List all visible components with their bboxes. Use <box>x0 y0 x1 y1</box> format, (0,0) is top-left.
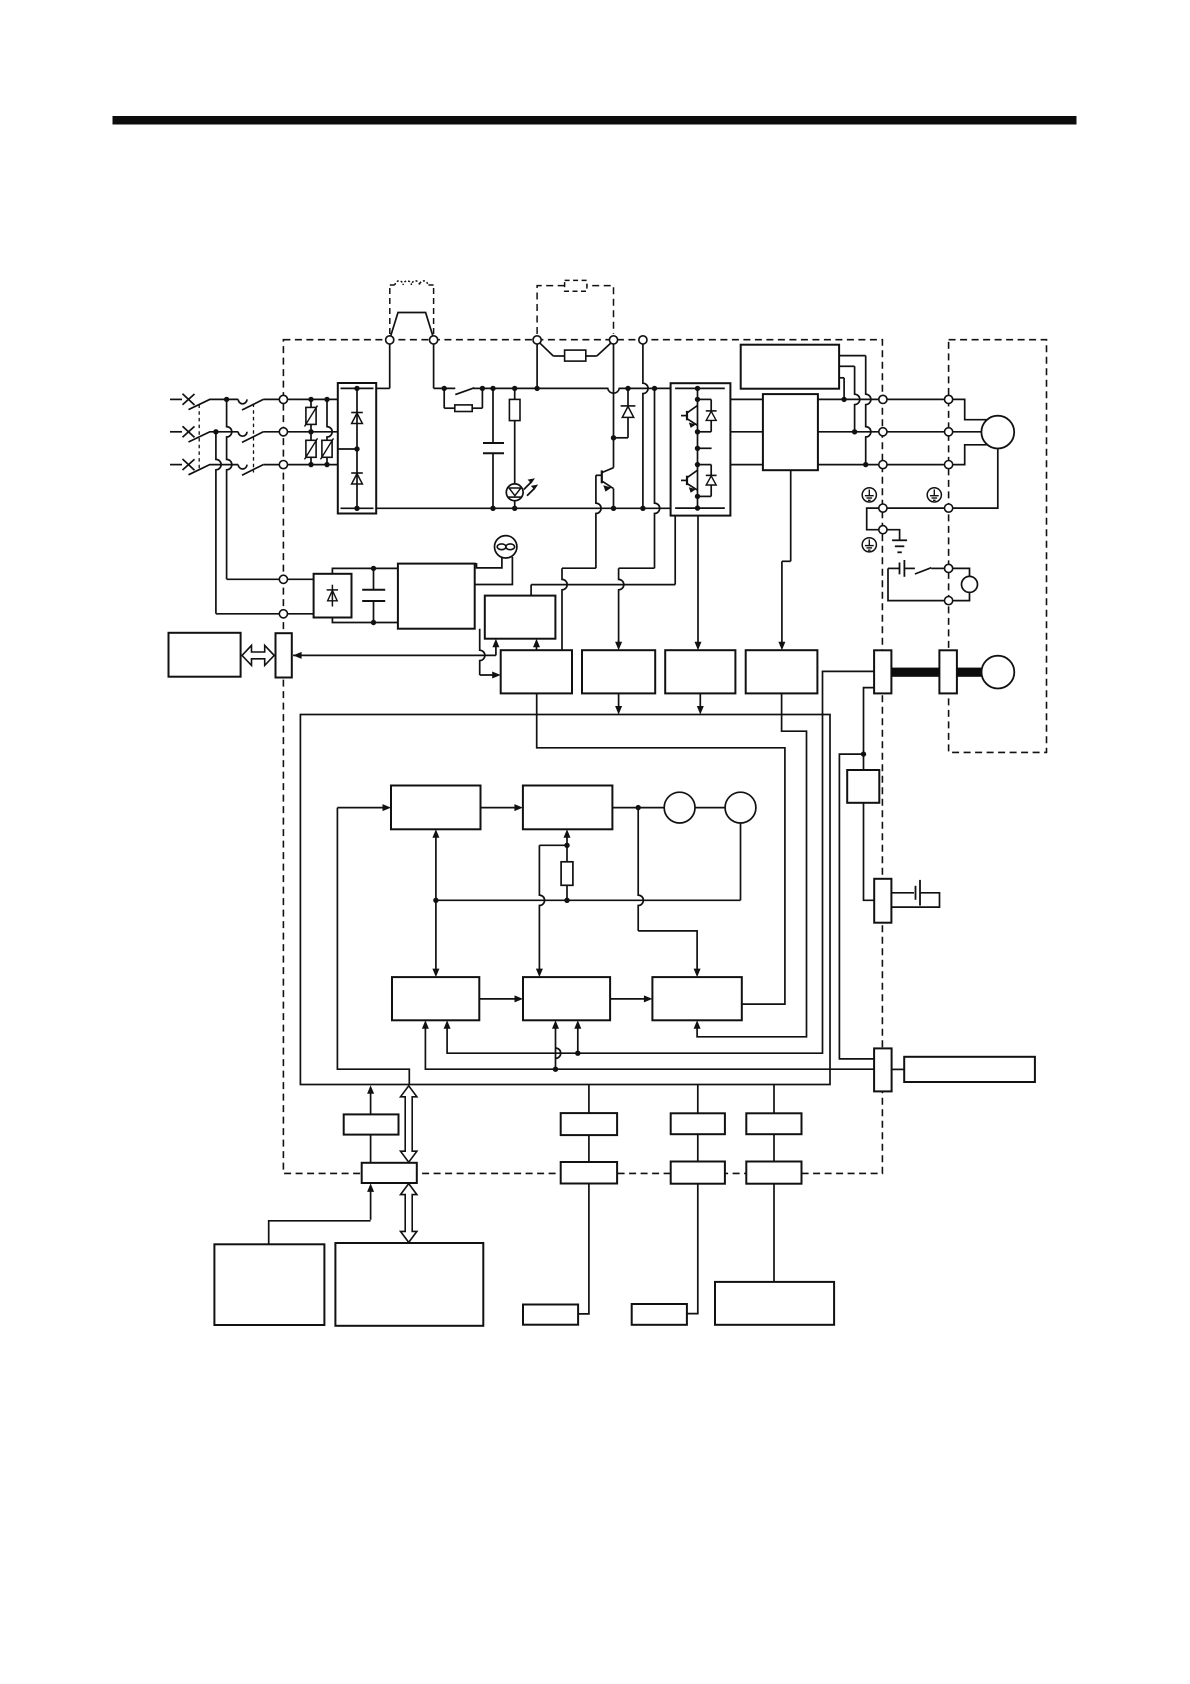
external operation unit block <box>169 633 241 677</box>
wire lamp lead 1 <box>475 557 502 568</box>
dynamic brake circuit block <box>741 345 839 389</box>
wire battery feed to CN1 connector <box>839 754 874 1059</box>
wire column4 to connector <box>773 1134 775 1161</box>
magnetic contactor MC pole S <box>238 432 247 436</box>
wire CN1B to option <box>892 1068 905 1070</box>
junction cap N <box>490 506 495 511</box>
junction resistor on feedback line <box>564 898 569 903</box>
terminal P2 <box>430 336 438 344</box>
junction IPM P rail <box>695 386 700 391</box>
battery MR-BAT <box>891 892 914 894</box>
wire model speed feedback <box>566 834 568 845</box>
wire CT sense down <box>790 470 792 561</box>
wire to detection block <box>863 754 865 770</box>
wire S1 to S2 <box>695 807 725 809</box>
junction IPM N rail <box>695 505 700 510</box>
junction regen diode P <box>625 386 630 391</box>
wire speed feedback horizontal <box>436 899 741 901</box>
regenerative brake option dashed box <box>537 286 613 334</box>
protective earth symbol amplifier <box>862 488 876 502</box>
junction IPM up-C <box>695 397 700 402</box>
current detection block <box>665 650 735 693</box>
wire motor W lead <box>953 445 987 465</box>
terminal V <box>879 428 887 436</box>
junction DB tap U <box>841 397 846 402</box>
junction V1/V2 <box>308 429 313 434</box>
wire rectifier + to P1 <box>376 387 390 389</box>
wire digital I/F column 1 <box>370 1090 372 1115</box>
wire U IPM to CT <box>730 398 763 400</box>
junction control cap - <box>371 620 376 625</box>
arrow model position to model speed <box>481 807 519 809</box>
junction cap P <box>490 386 495 391</box>
wire column3 to option unit <box>687 1184 698 1314</box>
junction DB tap W <box>863 462 868 467</box>
wire external sequence to CN1A <box>370 1188 372 1220</box>
inrush resistor bypass <box>443 388 445 408</box>
IPM internal rails <box>675 387 725 389</box>
diode regen freewheel <box>627 388 629 406</box>
wire column2 to monitor output <box>578 1184 589 1314</box>
I/F block column4 upper <box>746 1113 801 1134</box>
connector CN2 amplifier side <box>874 650 891 693</box>
wire up to P1 terminal <box>389 344 391 388</box>
wire R terminal to rectifier <box>287 398 338 400</box>
wire current sense to block <box>697 516 699 645</box>
wire R to contactor <box>210 398 238 400</box>
magnetic contactor MC pole T <box>238 465 247 469</box>
wire PE to earth ground <box>887 530 900 541</box>
wire bus voltage tap to block <box>652 386 657 391</box>
wire to L11 terminal <box>227 578 280 580</box>
servo control section outer block <box>300 715 830 1085</box>
encoder cable thick <box>891 668 939 677</box>
voltage detection block <box>582 650 655 693</box>
DC reactor coil (dotted arcs) <box>395 281 428 285</box>
control rectifier diode block <box>314 574 352 618</box>
connector column2 <box>561 1162 617 1184</box>
wire regen base drive <box>596 474 602 476</box>
wire L11 tap down <box>227 399 232 579</box>
charge lamp arrows <box>524 482 532 490</box>
wire encoder feedback line A <box>447 671 874 1053</box>
junction rectifier mid <box>354 446 359 451</box>
switch brake release <box>915 568 931 574</box>
electrolytic capacitor main <box>492 388 494 443</box>
terminal PE2 <box>879 526 887 534</box>
junction IPM mid <box>695 446 700 451</box>
IPM inverter module <box>671 383 731 515</box>
lamp infinity mark <box>497 544 506 550</box>
regen resistor internal <box>540 343 553 356</box>
analog monitor block <box>523 1305 578 1325</box>
wire DB to W phase <box>839 355 866 357</box>
resistor charge-lamp series <box>514 388 516 399</box>
terminal L3 <box>279 461 287 469</box>
wire CN2 lower lead <box>864 688 875 755</box>
wire P terminal drop <box>536 344 538 388</box>
terminal U <box>879 395 887 403</box>
wire U amplifier to motor <box>887 398 945 400</box>
terminal L1 <box>279 395 287 403</box>
wire motor V lead <box>953 431 982 433</box>
current detector CT block <box>763 394 818 470</box>
MC mechanical link dashed <box>253 404 255 473</box>
wire control DC top rail <box>332 568 398 573</box>
junction IPM dn-E <box>695 494 700 499</box>
junction P bus b <box>480 386 485 391</box>
wire W to output terminal <box>818 464 879 466</box>
servo motor M <box>981 416 1014 449</box>
junction model speed node <box>564 843 569 848</box>
junction lamp N <box>512 506 517 511</box>
IGBT upper <box>686 411 688 420</box>
motor terminal V <box>945 428 953 436</box>
wire P2 down to P bus <box>433 344 435 388</box>
junction lamp P <box>512 386 517 391</box>
switching control power supply block <box>398 564 475 629</box>
varistor V1 (R-S) <box>310 399 312 407</box>
wire to L21 terminal <box>216 613 280 615</box>
wire L11 to control rectifier <box>287 578 313 580</box>
actual position control block <box>392 977 479 1020</box>
wire PE terminal link <box>867 508 879 530</box>
wire lamp lead 2 <box>475 557 513 585</box>
wire motor U lead <box>953 399 987 419</box>
protective earth symbol ground <box>862 538 876 552</box>
lamp display <box>495 536 517 558</box>
junction position link on feedback line <box>433 898 438 903</box>
regen option resistor dashed rect <box>565 280 587 291</box>
encoder E <box>982 656 1015 689</box>
arrow voltage detection into control <box>618 693 620 708</box>
wire T to contactor <box>210 464 238 466</box>
wire RS232 column 3 <box>697 1085 699 1114</box>
junction V1 top <box>308 397 313 402</box>
wire W amplifier to motor <box>887 464 945 466</box>
wire S to contactor <box>210 431 238 433</box>
bidirectional hollow arrow controller upper <box>401 1086 417 1162</box>
junction N terminal on N bus <box>640 506 645 511</box>
junction rectifier - <box>354 506 359 511</box>
circuit breaker NFB pole T <box>183 459 195 470</box>
jumper bar P1-P2 <box>391 313 433 337</box>
junction V3 bottom <box>324 462 329 467</box>
connector CN1B <box>874 1048 892 1091</box>
brake terminal B2 <box>945 597 953 605</box>
personal computer block <box>715 1282 834 1325</box>
wire U to output terminal <box>818 398 879 400</box>
junction control cap + <box>371 566 376 571</box>
varistor V2 (S-T) <box>310 432 312 441</box>
transistor regenerative brake <box>613 438 615 468</box>
terminal PE1 <box>879 504 887 512</box>
motor terminal PE <box>945 504 953 512</box>
optional DC reactor dashed box <box>389 288 391 335</box>
wire T terminal to rectifier <box>287 464 338 466</box>
wire R-phase input stub <box>170 398 182 400</box>
wire P bus <box>434 387 456 389</box>
wire detection block to battery connector <box>864 803 875 901</box>
wire encoder feedback line B <box>425 1025 874 1069</box>
NFB mechanical link dashed <box>198 405 200 472</box>
communication option block <box>632 1304 687 1325</box>
I/F block column3 upper <box>671 1113 725 1134</box>
brake terminal B1 <box>945 564 953 572</box>
terminal C <box>609 336 617 344</box>
wire L21 tap down <box>216 432 221 614</box>
external controller block <box>335 1243 483 1326</box>
junction P bus a <box>442 386 447 391</box>
servo amplifier dashed enclosure <box>283 340 882 1174</box>
option unit long block <box>904 1057 1035 1082</box>
terminal P1 <box>386 336 394 344</box>
junction S-phase tap <box>213 429 218 434</box>
resistor inrush <box>455 405 472 412</box>
wire V to output terminal <box>818 431 879 433</box>
wire overcurrent block to current loop return <box>537 693 785 1004</box>
wire control DC bottom rail <box>332 618 398 623</box>
junction V2 bottom <box>308 462 313 467</box>
wire IPM gate drive <box>674 516 676 585</box>
wire S terminal to rectifier <box>287 431 338 433</box>
junction P terminal <box>534 386 539 391</box>
wire model speed to S1 <box>612 807 664 809</box>
connector CN3 <box>276 633 292 677</box>
ground earth symbol <box>892 539 907 541</box>
summing node S2 <box>725 792 756 823</box>
junction feedback A branch <box>575 1051 580 1056</box>
wire DB to V phase <box>839 365 855 367</box>
wire bidirectional com to CN3 <box>495 644 497 656</box>
wire brake loop bottom <box>953 592 970 600</box>
varistor V3 (R-T) <box>327 399 332 440</box>
arrow current detection into control <box>699 693 701 708</box>
junction regen emitter on N bus <box>611 506 616 511</box>
rectifier diode bridge block <box>338 383 376 514</box>
wire control supply to overcurrent block <box>480 629 485 675</box>
rectifier internal rail and diodes <box>341 387 374 389</box>
summing node S1 <box>664 792 695 823</box>
terminal P <box>533 336 541 344</box>
wire command input to model position control <box>337 807 386 809</box>
connector CN1A <box>362 1163 417 1183</box>
bidirectional hollow arrow controller lower <box>401 1184 417 1243</box>
wire column2 to CN3m <box>588 1135 590 1162</box>
connector column3 <box>671 1162 725 1184</box>
wire brake loop right <box>953 568 970 576</box>
wire branch to actual speed control <box>539 844 567 846</box>
current encoding block <box>746 650 818 693</box>
terminal L11 <box>279 575 287 583</box>
overcurrent protection block <box>501 650 572 693</box>
IPM midpoint output stub <box>698 447 712 449</box>
terminal W <box>879 461 887 469</box>
wire P bus to inverter (dips under C drop) <box>482 388 670 393</box>
motor terminal U <box>945 395 953 403</box>
magnetic contactor MC pole R <box>238 399 247 403</box>
junction IPM dn-C <box>695 462 700 467</box>
model speed control block <box>523 786 613 830</box>
header rule bar <box>113 116 1077 125</box>
wire L21 to control rectifier <box>287 613 313 615</box>
terminal N <box>639 336 647 344</box>
arrow actual position to actual speed <box>479 998 518 1000</box>
wire N bus <box>376 507 670 509</box>
resistor model torque <box>566 845 568 862</box>
wire motor frame earth <box>953 449 998 509</box>
wire W IPM to CT <box>730 464 763 466</box>
junction IPM up-E <box>695 429 700 434</box>
brake coil B <box>962 576 978 592</box>
connector column4 <box>746 1162 801 1184</box>
wire servo config column 4 <box>773 1085 775 1114</box>
current control block <box>652 977 741 1020</box>
wire C terminal to regen transistor <box>613 344 615 438</box>
wire S2 to feedback line <box>740 823 742 900</box>
wire analog monitor column 2 <box>588 1085 590 1114</box>
circuit breaker NFB pole S <box>183 426 195 437</box>
IGBT lower <box>686 476 688 485</box>
terminal L21 <box>279 610 287 618</box>
wire S-phase input stub <box>170 431 182 433</box>
junction model torque tap <box>636 805 641 810</box>
absolute position detection block <box>847 770 879 803</box>
capacitor control filter <box>373 568 375 589</box>
junction DB tap V <box>852 429 857 434</box>
I/F block column1 upper <box>344 1114 399 1134</box>
wire model torque to current control <box>638 808 643 931</box>
wire V amplifier to motor <box>887 431 945 433</box>
motor terminal W <box>945 461 953 469</box>
wire N terminal to N bus <box>643 344 648 508</box>
wire DB to U phase <box>839 377 844 379</box>
junction R-phase tap <box>224 397 229 402</box>
circuit breaker NFB pole R <box>183 394 195 405</box>
wire current encoder to current control feedback <box>697 693 806 1036</box>
wire base amplifier gate line <box>530 585 532 596</box>
inrush suppression relay switch <box>455 388 474 395</box>
diode lower freewheel <box>698 464 712 466</box>
diode control rectifier symbol <box>331 585 333 607</box>
bidirectional hollow arrow CN3 <box>242 645 274 665</box>
wire PE motor to amplifier <box>887 507 945 509</box>
I/F block column2 upper <box>561 1113 617 1135</box>
wire column3 to connector <box>697 1134 699 1161</box>
servo motor dashed enclosure <box>949 340 1047 753</box>
junction feedback B branch <box>553 1067 558 1072</box>
actual speed control block <box>523 977 610 1020</box>
arrow into base amplifier from overcurrent block <box>536 644 538 651</box>
model position control block <box>391 786 481 830</box>
junction V3 top <box>324 397 329 402</box>
terminal L2 <box>279 428 287 436</box>
arrow actual speed to current control <box>610 998 648 1000</box>
battery brake power supply <box>888 567 900 569</box>
diode upper freewheel <box>698 398 712 400</box>
junction rectifier + <box>354 386 359 391</box>
junction battery feed <box>861 751 866 756</box>
base amplifier block <box>485 596 556 639</box>
charge lamp LED <box>514 483 516 508</box>
wire T-phase input stub <box>170 464 182 466</box>
wire model/actual position link <box>435 834 437 973</box>
junction regen collector node <box>611 435 616 440</box>
wire column4 to personal computer <box>773 1184 775 1282</box>
connector encoder side <box>939 650 957 693</box>
wire V IPM to CT <box>730 431 763 433</box>
connector CON battery <box>874 879 891 923</box>
wire column1 to CN1A <box>370 1135 372 1163</box>
protective earth symbol motor <box>927 488 941 502</box>
external sequence I/O block <box>214 1244 324 1325</box>
